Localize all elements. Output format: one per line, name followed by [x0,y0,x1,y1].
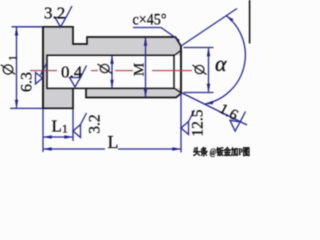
bore left end wall [46,55,48,89]
roughness symbol 1.6 (on alpha lower leg) [230,112,246,132]
bore (white interior band) [47,55,180,88]
flange left face (redrawn over white sliver) [42,26,44,109]
bore right end wall [173,55,175,89]
svg-text:L: L [108,132,119,152]
centerline (red axis) [30,70,192,72]
ext line right bottom (end dia) [184,92,214,94]
dim line phi1 [16,28,18,108]
dimension/extension lines (blue) [10,9,247,153]
dim line L1 [44,136,73,138]
roughness symbol 12.5 (on L right extension) [181,110,195,135]
dim line M [145,38,147,97]
svg-text:0.4: 0.4 [61,63,83,82]
svg-text:头条 @钣金加P图: 头条 @钣金加P图 [193,146,250,157]
phi bore arrows [110,55,113,64]
bore bottom edge [47,87,175,89]
phi end arrows [207,48,210,57]
ext line x181 (L right) [180,94,182,153]
dim line phi end [208,48,210,92]
ext line x73 (L1 right) [72,109,74,141]
svg-text:c×45°: c×45° [133,12,167,29]
svg-text:α: α [215,51,227,76]
label phi bore (rotated phi glyph drawn) [98,64,113,74]
svg-text:M: M [132,63,148,76]
svg-text:3.2: 3.2 [87,114,104,133]
alpha upper leg [181,9,237,47]
right end face [180,46,182,95]
dim line L (left segment) [44,148,105,150]
arc arrow top [226,16,233,22]
bore entrance inner chamfer bottom [174,88,181,93]
label phi1 (rotated phi glyph drawn) [1,65,15,74]
L1 arrows [43,135,52,138]
arrowheads (blue) [15,16,234,151]
frame border fragment top right [249,0,251,44]
bore entrance inner chamfer top [174,51,181,56]
alpha arc [205,16,245,104]
dim line L (right segment) [118,148,180,150]
arc arrow bottom [205,101,213,105]
bore top edge [47,54,175,56]
ext line bottom (phi1) [10,107,43,109]
roughness symbol 3.2 (bottom, on L1 extension) [73,113,87,138]
svg-text:12.5: 12.5 [190,109,207,136]
L arrows [43,147,52,150]
M arrows [144,37,147,46]
label phi end (rotated phi glyph drawn) [193,65,207,75]
roughness symbol 3.2 (top, on flange top edge) [55,6,72,27]
svg-text:6.3: 6.3 [19,72,36,92]
svg-text:3.2: 3.2 [44,4,65,23]
ext line x43 below flange (L/L1 left) [42,109,44,152]
leader underline c x 45 [133,28,180,41]
ext line right top (end dia) [184,47,214,49]
alpha lower leg (1.6 leader) [181,93,247,126]
svg-text:1: 1 [6,55,20,61]
dim line phi bore [111,56,113,88]
roughness symbol 0.4 (on bore bottom) [70,66,87,88]
roughness symbol 6.3 (on flange left face) [36,64,47,85]
part body (sectioned bushing silhouette, gray fill) [43,27,181,109]
ext line top (phi1) [12,26,44,28]
phi1 arrows [15,27,18,36]
